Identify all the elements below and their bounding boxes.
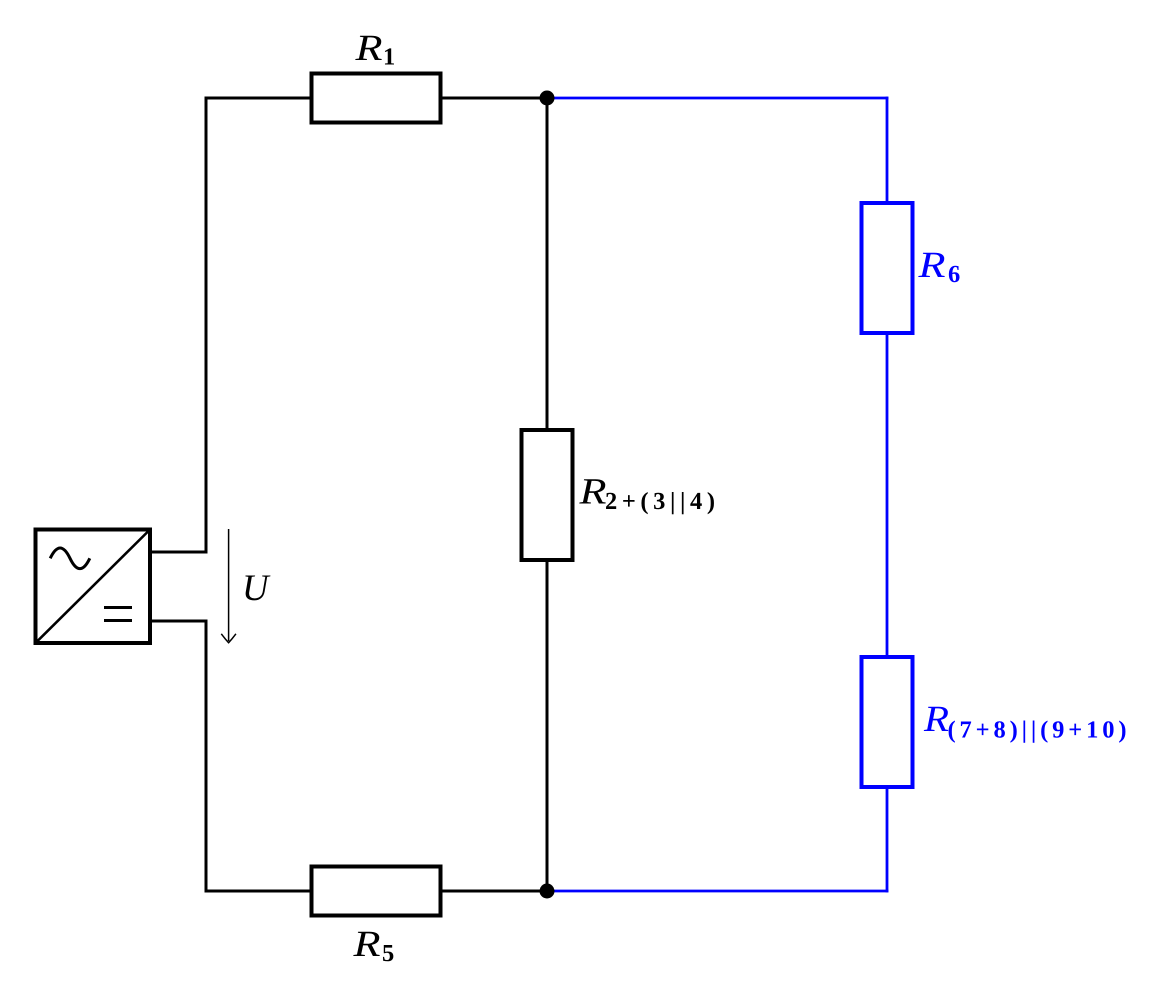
wire blue right vertical — [886, 97, 889, 893]
svg-text:1: 1 — [383, 44, 395, 71]
wire blue top horizontal — [547, 97, 888, 100]
wire source bottom terminal stub — [150, 620, 208, 623]
resistor R5 — [312, 867, 441, 916]
source diagonal — [37, 531, 150, 643]
svg-text:R: R — [352, 924, 380, 965]
wire bottom horizontal — [205, 890, 548, 893]
svg-text:5: 5 — [382, 940, 394, 967]
resistor R6 — [862, 203, 913, 333]
svg-text:6: 6 — [948, 261, 960, 288]
svg-text:R: R — [917, 245, 945, 286]
svg-text:2+(3||4): 2+(3||4) — [605, 488, 715, 515]
voltage arrow U — [228, 529, 230, 641]
wire left vertical upper segment — [205, 97, 208, 553]
svg-text:R: R — [923, 699, 949, 740]
svg-text:R: R — [578, 472, 606, 513]
source sine symbol — [50, 548, 90, 569]
resistor R1 — [312, 74, 441, 123]
source box U (AC/DC converter) — [36, 530, 151, 644]
wire top horizontal — [205, 97, 548, 100]
wire source top terminal stub — [150, 551, 208, 554]
wire left vertical lower segment — [205, 621, 208, 893]
node bottom junction — [540, 884, 555, 899]
svg-text:R: R — [354, 28, 382, 69]
resistor R(7+8)||(9+10) — [862, 657, 913, 787]
wire blue bottom horizontal — [547, 890, 888, 893]
node top junction — [540, 91, 555, 106]
wire middle vertical branch — [546, 98, 549, 891]
svg-text:(7+8)||(9+10): (7+8)||(9+10) — [948, 717, 1127, 744]
svg-text:U: U — [242, 568, 271, 609]
resistor R2+(3||4) — [522, 430, 573, 560]
source equals symbol — [104, 606, 132, 609]
